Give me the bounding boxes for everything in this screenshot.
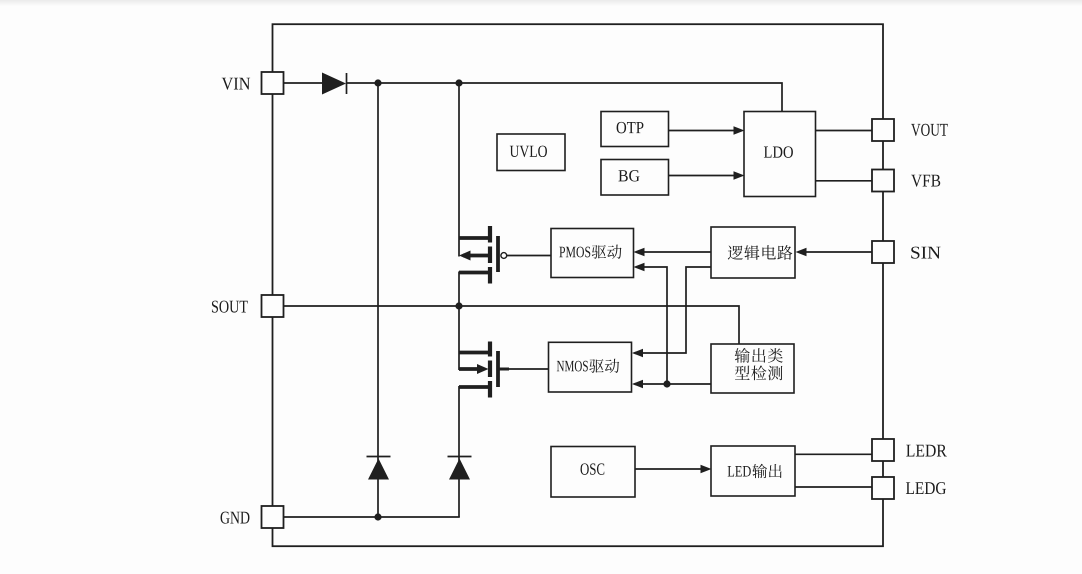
wire LED output to LEDG pin [795,486,872,488]
page top band [0,0,1082,6]
wire rail B lower [458,386,460,517]
wire VIN pin to diode D1 [284,82,322,84]
wire detect to NMOS driver [632,380,711,389]
pin GND [262,506,284,528]
body diode D2 on rail A [367,457,391,480]
node VIN railA junction [374,79,381,86]
pin LEDG [872,477,894,499]
pin VOUT [872,119,894,141]
wire LED output to LEDR pin [795,453,872,455]
wire logic to NMOS driver [632,267,711,357]
block OSC [551,447,635,498]
pin LEDR [872,439,894,461]
block LDO [744,112,816,197]
pin SOUT [262,295,284,317]
node SOUT railB junction [455,302,462,309]
block logic circuit [711,227,795,278]
node VIN railB junction [455,79,462,86]
pin VFB [872,170,894,192]
block PMOS driver [551,229,634,278]
label VFB [911,175,922,187]
block NMOS driver [549,342,632,392]
wire rail B upper [458,83,460,257]
wire VIN rail to LDO drop [347,83,783,112]
pin VIN [262,72,284,94]
wire detect branch to PMOS driver [634,263,668,384]
body diode D3 on rail B [448,457,472,480]
label SIN [911,247,919,259]
label VOUT [911,124,920,136]
wire GND line [284,516,460,518]
wire LDO to VOUT pin [816,130,873,132]
node GND railA junction [374,513,381,520]
wire SOUT line [284,306,740,344]
label LEDG [906,482,914,494]
label LEDR [906,445,914,457]
wire rail A vertical [377,83,379,517]
transistor Q1 PMOS [459,226,551,284]
wire rail B middle [458,272,460,371]
wire logic to PMOS driver [634,248,712,257]
wire BG to LDO [669,171,745,180]
IC boundary [273,24,884,546]
block UVLO [497,134,565,171]
node detect branch junction [663,380,670,387]
wire OSC to LED output [635,465,712,474]
wire SIN pin to logic [796,248,873,257]
label VIN [222,78,233,90]
block BG [601,160,669,196]
diode D1 series on VIN [322,73,347,95]
transistor Q2 NMOS [459,342,549,398]
wire OTP to LDO [669,126,745,135]
block OTP [601,112,669,147]
wire LDO to VFB pin [816,180,873,182]
label GND [221,512,230,524]
block LED output [711,446,795,496]
label SOUT [212,301,218,313]
block output type detection [711,344,794,393]
pin SIN [872,241,894,263]
